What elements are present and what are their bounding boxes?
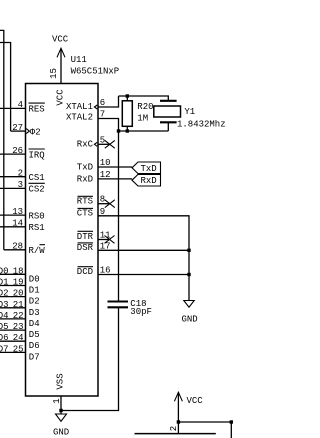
svg-text:10: 10 [100, 158, 111, 168]
node VCC junction bottom [177, 420, 180, 423]
wire pin2 of U12 [169, 422, 179, 434]
wire pin21 D3 [0, 300, 40, 318]
node corner junction bottom right [230, 420, 233, 423]
svg-text:1.8432Mhz: 1.8432Mhz [177, 119, 226, 129]
svg-text:3: 3 [18, 180, 23, 190]
svg-text:2: 2 [169, 426, 179, 431]
wire pin6 XTAL1 [66, 96, 119, 112]
node DSR rail junction [187, 249, 190, 252]
svg-text:D6: D6 [29, 341, 40, 351]
svg-text:RxD: RxD [77, 174, 93, 184]
svg-text:DTR: DTR [77, 232, 94, 242]
wire pin14 RS1 [0, 219, 45, 233]
svg-text:DCD: DCD [77, 267, 93, 277]
wire pin8 RTS no-connect [77, 195, 115, 208]
wire pin5 RxC no-connect [77, 135, 115, 149]
svg-text:D1: D1 [29, 286, 40, 296]
wire pin27 PHI2 [11, 123, 41, 137]
svg-text:D1: D1 [0, 278, 9, 288]
svg-text:21: 21 [13, 300, 24, 310]
resistor R20 [122, 96, 153, 131]
svg-text:27: 27 [12, 123, 23, 133]
wire top-left stub net B [0, 43, 11, 132]
svg-text:12: 12 [100, 170, 111, 180]
wire pin1 VSS [52, 373, 66, 410]
svg-text:CTS: CTS [77, 209, 93, 219]
svg-text:2: 2 [18, 169, 23, 179]
svg-text:D5: D5 [29, 330, 40, 340]
svg-text:9: 9 [100, 207, 105, 217]
wire xtal top net [119, 96, 169, 101]
svg-text:5: 5 [100, 135, 105, 145]
svg-text:Φ2: Φ2 [30, 127, 41, 137]
svg-text:RS1: RS1 [29, 223, 45, 233]
wire pin16 DCD [77, 266, 189, 278]
wire VCC net bottom right [178, 422, 231, 438]
node xtal2 rail junction [117, 129, 120, 132]
svg-text:D7: D7 [29, 352, 40, 362]
svg-text:25: 25 [13, 344, 24, 354]
svg-text:CS1: CS1 [29, 173, 45, 183]
svg-text:D7: D7 [0, 344, 9, 354]
svg-text:D2: D2 [0, 289, 9, 299]
node R20 top junction [126, 94, 129, 97]
crystal Y1 [154, 101, 226, 131]
wire pin3 CS2 [0, 180, 45, 194]
svg-text:TxD: TxD [141, 164, 157, 174]
svg-text:VCC: VCC [52, 35, 69, 45]
wire pin18 D0 [0, 266, 40, 284]
wire pin13 RS0 [0, 207, 45, 221]
node flag RxD [132, 174, 161, 186]
svg-text:W65C51NxP: W65C51NxP [71, 67, 120, 77]
wire pin2 CS1 [0, 169, 45, 183]
wire pin9 CTS to ground rail [77, 207, 189, 300]
svg-text:D4: D4 [0, 311, 9, 321]
wire pin28 R/W [4, 242, 46, 256]
svg-text:15: 15 [49, 68, 59, 79]
svg-text:30pF: 30pF [130, 307, 152, 317]
IC U12 chip top edge (partial) [135, 433, 216, 435]
svg-text:Y1: Y1 [184, 107, 195, 117]
svg-text:RES: RES [29, 104, 45, 114]
svg-text:GND: GND [53, 428, 69, 438]
svg-text:RS0: RS0 [29, 211, 45, 221]
svg-text:TxD: TxD [77, 163, 93, 173]
svg-text:XTAL2: XTAL2 [66, 113, 93, 123]
wire pin7 XTAL2 [66, 110, 119, 132]
svg-text:RxC: RxC [77, 140, 94, 150]
svg-text:13: 13 [12, 207, 23, 217]
svg-text:VSS: VSS [56, 373, 66, 389]
wire pin4 RES [0, 100, 45, 114]
svg-text:26: 26 [12, 146, 23, 156]
wire top-left stub net A [0, 30, 4, 249]
svg-text:GND: GND [182, 315, 198, 325]
svg-text:17: 17 [100, 241, 111, 251]
svg-text:RxD: RxD [141, 176, 157, 186]
svg-text:D0: D0 [0, 266, 9, 276]
svg-text:CS2: CS2 [29, 185, 45, 195]
node VSS ground junction [59, 409, 62, 412]
svg-text:D4: D4 [29, 319, 40, 329]
svg-text:IRQ: IRQ [29, 150, 45, 160]
power VCC top with pin 15 [49, 35, 69, 106]
svg-text:D3: D3 [0, 300, 9, 310]
wire pin20 D2 [0, 289, 40, 307]
svg-text:28: 28 [12, 242, 23, 252]
svg-text:1M: 1M [137, 114, 148, 124]
svg-text:VCC: VCC [56, 89, 66, 106]
svg-text:R/W: R/W [29, 246, 46, 256]
node flag TxD [132, 162, 161, 174]
svg-text:D3: D3 [29, 308, 40, 318]
svg-text:22: 22 [13, 311, 24, 321]
svg-text:14: 14 [12, 219, 23, 229]
svg-text:8: 8 [100, 195, 105, 205]
svg-text:XTAL1: XTAL1 [66, 102, 93, 112]
svg-text:19: 19 [13, 278, 24, 288]
svg-text:1: 1 [52, 398, 62, 403]
svg-text:7: 7 [100, 110, 105, 120]
capacitor C18 30pF [108, 299, 152, 317]
svg-text:D5: D5 [0, 322, 9, 332]
wire rail to C18 [118, 131, 120, 301]
svg-text:U11: U11 [71, 55, 87, 65]
wire pin22 D4 [0, 311, 40, 329]
svg-text:D6: D6 [0, 333, 9, 343]
svg-text:20: 20 [13, 289, 24, 299]
wire pin17 DSR [77, 241, 189, 253]
svg-text:DSR: DSR [77, 243, 94, 253]
node DCD rail junction [187, 273, 190, 276]
svg-text:6: 6 [100, 98, 105, 108]
wire pin24 D6 [0, 333, 40, 351]
wire pin25 D7 [0, 344, 40, 362]
ground GND right rail [182, 301, 198, 325]
svg-text:D2: D2 [29, 297, 40, 307]
svg-text:D0: D0 [29, 274, 40, 284]
svg-text:23: 23 [13, 322, 24, 332]
wire pin12 RxD [77, 170, 132, 185]
wire pin19 D1 [0, 278, 40, 296]
svg-text:24: 24 [13, 333, 24, 343]
svg-text:VCC: VCC [187, 396, 204, 406]
svg-text:RTS: RTS [77, 196, 93, 206]
svg-text:16: 16 [100, 266, 111, 276]
wire pin11 DTR no-connect [77, 231, 115, 244]
wire xtal bottom net [119, 130, 169, 132]
svg-text:R20: R20 [137, 102, 153, 112]
IC U11 W65C51NxP chip body [26, 55, 120, 396]
wire C18 bottom to ground net [61, 307, 119, 410]
svg-text:18: 18 [13, 266, 24, 276]
wire pin23 D5 [0, 322, 40, 340]
wire pin26 IRQ [0, 146, 45, 160]
node R20 bottom junction [126, 129, 129, 132]
power VCC bottom right [174, 392, 203, 422]
ground GND at pin1 [53, 411, 69, 438]
wire pin10 TxD [77, 158, 132, 173]
svg-text:4: 4 [18, 100, 23, 110]
